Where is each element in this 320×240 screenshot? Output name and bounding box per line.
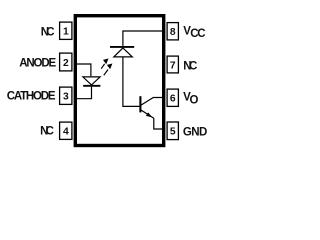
svg-text:O: O <box>190 94 199 106</box>
svg-text:7: 7 <box>170 60 176 71</box>
svg-text:5: 5 <box>170 127 176 138</box>
svg-text:6: 6 <box>170 94 176 105</box>
svg-text:4: 4 <box>63 127 69 138</box>
svg-text:ANODE: ANODE <box>19 58 56 70</box>
svg-text:CATHODE: CATHODE <box>7 91 56 103</box>
svg-text:1: 1 <box>63 27 69 38</box>
svg-text:3: 3 <box>63 92 69 103</box>
svg-text:GND: GND <box>183 126 207 138</box>
svg-text:NC: NC <box>40 126 54 138</box>
svg-text:NC: NC <box>183 61 197 73</box>
svg-text:C: C <box>197 28 205 40</box>
svg-text:NC: NC <box>41 26 55 38</box>
svg-text:8: 8 <box>170 27 176 38</box>
svg-text:2: 2 <box>63 58 69 69</box>
